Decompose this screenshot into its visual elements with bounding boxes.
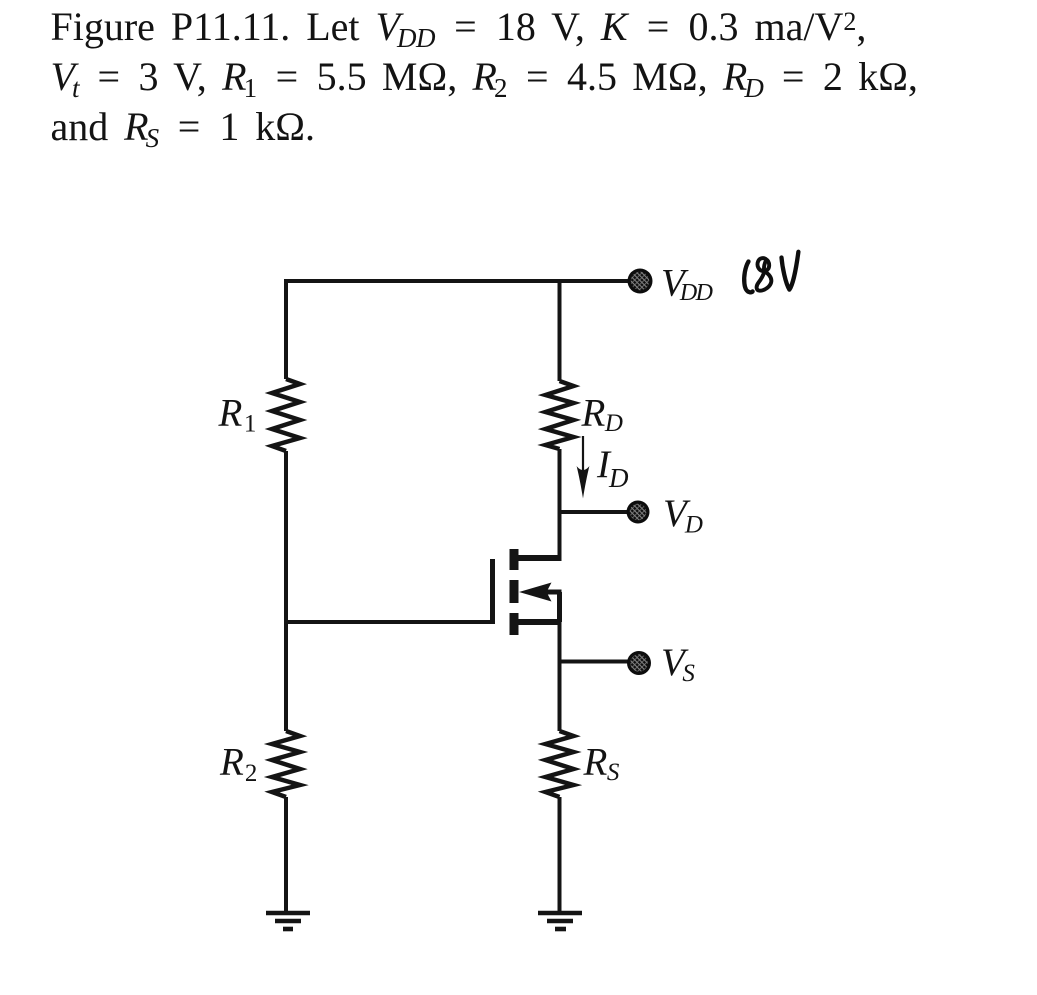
caption text block bbox=[51, 2, 918, 151]
svg-text:ID: ID bbox=[596, 443, 629, 493]
wire: drain vertical from RD to drain tab (through VD node) bbox=[558, 449, 562, 558]
svg-text:VDD: VDD bbox=[661, 262, 713, 307]
ground (right) bbox=[538, 913, 582, 929]
ground (left) bbox=[266, 913, 310, 929]
wire: gate horizontal from left branch to gate bar bbox=[286, 620, 490, 624]
wire: top rail from left branch to VDD terminal bbox=[284, 279, 629, 283]
terminal VDD bbox=[628, 269, 653, 294]
channel dash: drain segment bbox=[510, 549, 519, 570]
resistor RD bbox=[546, 381, 574, 449]
wire: source vertical from RS to ground bbox=[558, 797, 562, 911]
annotation: handwritten 18V bbox=[744, 252, 798, 293]
resistor R1 bbox=[272, 379, 300, 451]
arrowhead (body, pointing to channel) bbox=[519, 583, 552, 602]
svg-text:R1: R1 bbox=[218, 392, 257, 438]
wire: VD stub to terminal bbox=[558, 510, 629, 514]
resistor R2 bbox=[272, 731, 300, 797]
body lead with arrow bbox=[534, 590, 562, 595]
terminal VS bbox=[627, 651, 651, 675]
svg-text:RD: RD bbox=[581, 392, 623, 438]
gate bar bbox=[490, 559, 495, 624]
wire: left vertical from R2 to ground bbox=[284, 797, 288, 911]
wire: left vertical from R1 to gate node bbox=[284, 451, 288, 622]
wire: left vertical from top rail to R1 bbox=[284, 279, 288, 379]
svg-text:VS: VS bbox=[661, 641, 695, 687]
node: gate tap on left branch / wire to R2 bbox=[284, 622, 288, 731]
drain tab bbox=[518, 555, 562, 561]
terminal VD bbox=[627, 501, 650, 524]
svg-text:VD: VD bbox=[663, 492, 703, 539]
wire: drain branch vertical from top rail to RD bbox=[558, 279, 562, 381]
body-to-source link bbox=[557, 592, 562, 622]
transistor M1 (n-channel MOSFET) bbox=[493, 549, 562, 635]
svg-text:R2: R2 bbox=[219, 741, 257, 788]
source tab bbox=[518, 619, 562, 625]
channel dash: source segment bbox=[510, 613, 519, 635]
current arrow ID bbox=[577, 436, 590, 499]
channel dash: body segment bbox=[510, 580, 519, 603]
svg-text:RS: RS bbox=[583, 741, 620, 787]
resistor RS bbox=[546, 731, 574, 797]
wire: VS stub to terminal bbox=[558, 660, 628, 664]
wire: source vertical from source tab to RS bbox=[558, 622, 562, 731]
